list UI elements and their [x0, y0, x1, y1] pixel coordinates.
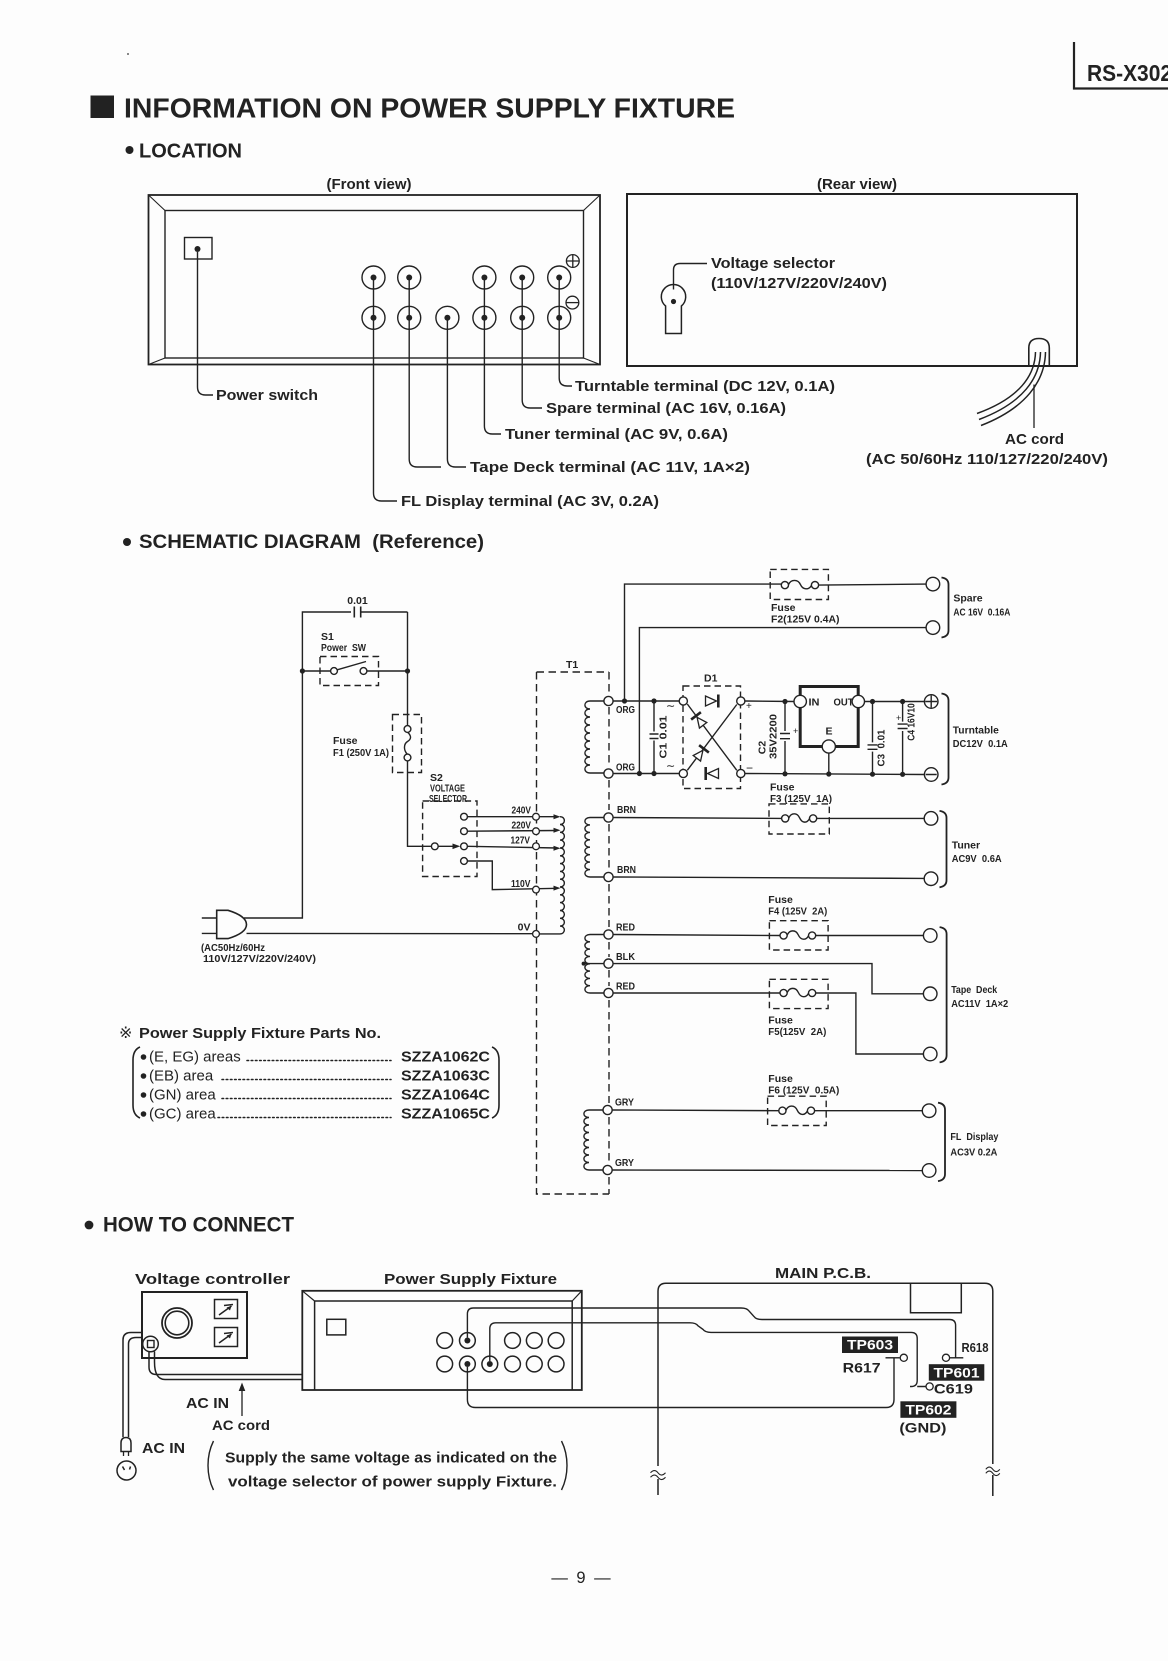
svg-text:Fuse: Fuse [770, 782, 795, 794]
selector S2 VOLTAGE SELECTOR [423, 772, 477, 877]
svg-text:Tape Deck: Tape Deck [951, 984, 997, 996]
label (Rear view) [817, 176, 897, 193]
svg-text:(GN) area: (GN) area [149, 1087, 216, 1104]
svg-text:Power SW: Power SW [321, 642, 366, 654]
svg-text:Turntable: Turntable [953, 725, 999, 737]
svg-text:35V2200: 35V2200 [768, 714, 780, 759]
turntable output terminals and label [924, 694, 1008, 785]
diode bridge D1 [679, 673, 753, 789]
svg-text:Power switch: Power switch [216, 387, 318, 404]
svg-text:110V: 110V [511, 878, 531, 890]
svg-text:SZZA1062C: SZZA1062C [401, 1049, 490, 1066]
svg-text:INFORMATION ON POWER SUPPLY FI: INFORMATION ON POWER SUPPLY FIXTURE [124, 93, 735, 124]
fuse F1 (250V 1A) [333, 715, 422, 773]
svg-text:AC9V 0.6A: AC9V 0.6A [952, 853, 1002, 865]
svg-text:Supply the same voltage as ind: Supply the same voltage as indicated on … [225, 1450, 557, 1467]
svg-text:LOCATION: LOCATION [139, 141, 242, 163]
svg-text:GRY: GRY [615, 1157, 634, 1169]
svg-text:C3 0.01: C3 0.01 [876, 729, 888, 766]
secondary terminals BRN [604, 804, 636, 882]
main PCB outline [651, 1283, 1000, 1496]
wire: ORG bottom rail to bridge [613, 771, 679, 776]
wire: F2 to spare terminal [819, 584, 927, 585]
capacitor C2 35V2200 [757, 702, 799, 774]
tape deck terminal leaders and label [409, 278, 750, 477]
wall plug (AC IN) [117, 1438, 136, 1481]
spare output terminals and label [926, 577, 1011, 637]
svg-text:RED: RED [616, 922, 635, 934]
svg-text:C4 16V10: C4 16V10 [906, 703, 918, 741]
svg-text:110V/127V/220V/240V): 110V/127V/220V/240V) [203, 953, 316, 965]
svg-text:— 9 —: — 9 — [551, 1569, 612, 1587]
resistor R617 test point [843, 1354, 908, 1375]
svg-text:E: E [826, 726, 833, 738]
model number label RS-X302 [1074, 42, 1168, 89]
capacitor 0.01 (line filter) [347, 595, 407, 618]
svg-text:(AC 50/60Hz 110/127/220/240V): (AC 50/60Hz 110/127/220/240V) [866, 451, 1108, 468]
svg-text:ORG: ORG [616, 704, 635, 716]
svg-text:SZZA1065C: SZZA1065C [401, 1106, 490, 1123]
wire: bridge - rail to output [745, 771, 925, 777]
secondary winding ORG (16V) [585, 701, 604, 773]
tape deck output terminals and label [923, 927, 1008, 1062]
svg-text:HOW TO CONNECT: HOW TO CONNECT [103, 1214, 294, 1237]
svg-text:Fuse: Fuse [768, 1073, 793, 1085]
wire: S2 127V tap [467, 846, 560, 851]
wire: S2 110V tap [467, 861, 560, 891]
svg-text:F2(125V 0.4A): F2(125V 0.4A) [771, 614, 840, 626]
svg-text:IN: IN [809, 697, 820, 709]
svg-text:FL Display terminal (AC 3V, 0.: FL Display terminal (AC 3V, 0.2A) [401, 493, 659, 510]
wire: ORG top rail to bridge [613, 698, 679, 703]
svg-text:+: + [896, 713, 901, 723]
front panel outline (bezel) [149, 195, 601, 365]
svg-text:Spare terminal (AC 16V, 0.16A): Spare terminal (AC 16V, 0.16A) [546, 400, 786, 417]
test point TP603 [842, 1337, 898, 1354]
svg-text:voltage selector of power supp: voltage selector of power supply Fixture… [228, 1474, 557, 1491]
spare terminal leader and label [522, 278, 786, 418]
AC cord: controller to wall plug [123, 1333, 142, 1438]
svg-text:AC 16V 0.16A: AC 16V 0.16A [953, 607, 1010, 619]
svg-text:T1: T1 [566, 659, 578, 671]
subheading: SCHEMATIC DIAGRAM (Reference) [123, 532, 484, 553]
wire: S2 240V tap [467, 814, 560, 819]
fuse F6 (125V 0.5A) [768, 1073, 840, 1126]
wire: spare feed top (to F2) [625, 584, 782, 701]
svg-text:ORG: ORG [616, 762, 635, 774]
wire W1: fixture to R618 (top trace) [467, 1308, 955, 1358]
wire: RED bottom rail through F5 to lower terminal [613, 993, 923, 1054]
wire: spare feed bottom [639, 628, 926, 774]
wire: S1 junction down to fuse F1 [407, 671, 409, 726]
svg-text:Tuner: Tuner [952, 840, 980, 852]
svg-text:BLK: BLK [616, 951, 635, 963]
svg-text:TP602: TP602 [905, 1402, 951, 1418]
controller switch buttons [215, 1300, 238, 1347]
primary tap terminals [533, 813, 540, 937]
label: Power Supply Fixture [384, 1271, 557, 1288]
wire: S2 220V tap [467, 828, 560, 833]
fuse F4 (125V 2A) [768, 894, 828, 950]
svg-text:SZZA1063C: SZZA1063C [401, 1068, 490, 1085]
svg-text:SZZA1064C: SZZA1064C [401, 1087, 490, 1104]
svg-text:AC11V 1A×2: AC11V 1A×2 [951, 998, 1008, 1010]
svg-text:220V: 220V [512, 819, 532, 831]
capacitor C619 test point [926, 1381, 973, 1397]
svg-text:(GC) area: (GC) area [149, 1106, 216, 1123]
label AC IN (controller output) [186, 1383, 245, 1417]
svg-text:RED: RED [616, 981, 635, 993]
svg-text:240V: 240V [512, 805, 532, 817]
parts number list [119, 1025, 499, 1123]
wire: regulator OUT to + terminal [865, 699, 925, 704]
svg-text:0.01: 0.01 [347, 595, 368, 607]
svg-text:F4 (125V 2A): F4 (125V 2A) [768, 906, 827, 918]
secondary winding GRY (3V) [584, 1110, 603, 1170]
svg-text:Spare: Spare [953, 593, 982, 605]
page corner mark [127, 53, 129, 55]
svg-text:※: ※ [119, 1025, 132, 1042]
PCB corner notch [911, 1283, 962, 1312]
svg-text:Fuse: Fuse [768, 894, 793, 906]
switch S1 Power SW [300, 631, 410, 686]
terminal sockets (front view) [362, 266, 571, 329]
svg-text:(Rear view): (Rear view) [817, 176, 897, 193]
svg-text:RS-X302: RS-X302 [1087, 60, 1168, 86]
fixture terminal sockets [437, 1333, 564, 1372]
svg-text:OUT: OUT [834, 697, 855, 709]
svg-text:+: + [746, 701, 752, 712]
label (Front view) [327, 176, 412, 193]
svg-text:Voltage selector: Voltage selector [711, 255, 835, 272]
svg-text:Tuner terminal (AC 9V, 0.6A): Tuner terminal (AC 9V, 0.6A) [505, 426, 728, 443]
svg-text:MAIN P.C.B.: MAIN P.C.B. [775, 1265, 871, 1282]
svg-text:+: + [793, 726, 798, 736]
label: MAIN P.C.B. [775, 1265, 871, 1282]
rear panel outline [627, 194, 1077, 366]
wire W3: fixture to R617 (bottom trace) [467, 1358, 894, 1408]
subheading: HOW TO CONNECT [85, 1214, 295, 1237]
wire: BRN bottom rail [613, 877, 924, 878]
svg-text:D1: D1 [704, 673, 718, 685]
wire: top rail right vertical down to S1 [407, 612, 409, 671]
svg-text:F1 (250V 1A): F1 (250V 1A) [333, 747, 389, 759]
power switch (front view) [185, 238, 213, 260]
polarity marks + and - [566, 255, 579, 309]
svg-text:(E, EG) areas: (E, EG) areas [149, 1049, 241, 1066]
capacitor C4 16V10 [896, 702, 918, 775]
svg-text:F5(125V 2A): F5(125V 2A) [768, 1026, 826, 1038]
wire: 0V line from plug to transformer [247, 932, 561, 935]
page number [551, 1569, 612, 1587]
svg-text:SELECTOR: SELECTOR [429, 793, 467, 805]
wire W2: fixture to C619 (middle trace) [490, 1323, 926, 1387]
svg-text:AC cord: AC cord [212, 1417, 270, 1433]
svg-text:0V: 0V [518, 922, 531, 934]
tuner terminal leader and label [484, 278, 728, 444]
svg-text:(GND): (GND) [899, 1420, 946, 1436]
svg-text:Tape Deck terminal (AC 11V, 1A: Tape Deck terminal (AC 11V, 1A×2) [470, 459, 750, 476]
svg-text:Voltage controller: Voltage controller [135, 1271, 290, 1288]
svg-text:BRN: BRN [617, 864, 636, 876]
power supply fixture box (pictorial) [302, 1291, 582, 1390]
test point TP601 [929, 1364, 985, 1381]
main heading: INFORMATION ON POWER SUPPLY FIXTURE [91, 93, 736, 124]
fuse F2 (125V 0.4A) [770, 569, 839, 625]
wire: GRY bottom rail [612, 1169, 922, 1172]
tuner output terminals and label [924, 811, 1002, 887]
svg-text:∼: ∼ [666, 701, 675, 713]
AC plug [201, 910, 316, 965]
svg-text:∼: ∼ [666, 761, 675, 773]
svg-text:F6 (125V 0.5A): F6 (125V 0.5A) [768, 1085, 839, 1097]
label (GND) [899, 1420, 946, 1436]
FL display terminal leader and label [374, 278, 660, 511]
svg-text:AC IN: AC IN [186, 1395, 229, 1412]
secondary winding BRN (9V) [585, 818, 604, 878]
voltage selector (keyhole) with leader and label [661, 255, 887, 334]
secondary terminals GRY [603, 1097, 634, 1175]
fuse F3 (125V 1A) [769, 782, 832, 835]
secondary terminals RED BLK RED [604, 922, 635, 998]
svg-text:AC IN: AC IN [142, 1440, 185, 1457]
svg-text:Turntable terminal (DC 12V, 0.: Turntable terminal (DC 12V, 0.1A) [575, 378, 835, 395]
svg-text:Power Supply Fixture: Power Supply Fixture [384, 1271, 557, 1288]
AC cord with grommet, leader and label [866, 339, 1108, 469]
FL display output terminals and label [922, 1103, 998, 1181]
secondary terminals ORG [604, 696, 635, 778]
transformer primary winding [560, 817, 564, 934]
svg-text:Power Supply Fixture Parts No.: Power Supply Fixture Parts No. [139, 1025, 381, 1042]
wire: bridge + rail to regulator [745, 699, 795, 704]
AC cord note [208, 1417, 567, 1491]
wire: BLK center tap to terminal [613, 964, 923, 994]
capacitor C1 0.01 [650, 701, 676, 773]
transformer T1 dashed box and label [537, 659, 610, 1194]
secondary winding RED/BLK/RED (11V x2) [582, 935, 604, 994]
wire: plug to top rail (left vertical) [244, 612, 351, 918]
svg-text:C619: C619 [934, 1381, 973, 1397]
subheading: LOCATION [126, 141, 243, 163]
AC cord: controller to fixture [149, 1352, 303, 1380]
wire: GRY top rail through F6 [612, 1109, 922, 1112]
power switch leader and label [198, 252, 319, 404]
voltage controller box [142, 1292, 247, 1358]
label AC IN (wall) [142, 1440, 185, 1457]
svg-text:(Front view): (Front view) [327, 176, 412, 193]
fuse F5 (125V 2A) [768, 979, 828, 1038]
controller AC socket [143, 1336, 159, 1352]
resistor R618 test point [942, 1341, 988, 1361]
svg-text:Fuse: Fuse [771, 602, 796, 614]
svg-text:(110V/127V/220V/240V): (110V/127V/220V/240V) [711, 275, 887, 292]
svg-text:TP601: TP601 [934, 1364, 980, 1380]
svg-text:TP603: TP603 [847, 1337, 893, 1353]
wire: BRN top rail through F3 [613, 817, 924, 820]
svg-text:SCHEMATIC DIAGRAM (Reference): SCHEMATIC DIAGRAM (Reference) [139, 532, 484, 553]
wire: F1 down and right to S2 common [408, 761, 432, 846]
label: Voltage controller [135, 1271, 290, 1288]
svg-text:BRN: BRN [617, 804, 636, 816]
svg-text:C1 0.01: C1 0.01 [658, 715, 670, 758]
svg-text:AC3V 0.2A: AC3V 0.2A [950, 1147, 997, 1159]
svg-text:Fuse: Fuse [768, 1015, 793, 1027]
test point TP602 [900, 1401, 956, 1418]
svg-text:R618: R618 [962, 1341, 989, 1355]
primary tap labels [511, 805, 532, 934]
svg-text:GRY: GRY [615, 1097, 634, 1109]
svg-text:(EB) area: (EB) area [149, 1068, 214, 1085]
voltage regulator (IN/OUT/E) [794, 687, 865, 775]
capacitor C3 0.01 [868, 702, 888, 775]
wire: RED top rail through F4 [613, 935, 923, 936]
svg-text:127V: 127V [511, 835, 531, 847]
turntable terminal leader and label [559, 278, 835, 396]
svg-text:Fuse: Fuse [333, 735, 358, 747]
svg-text:AC cord: AC cord [1005, 431, 1064, 448]
svg-text:FL Display: FL Display [950, 1131, 998, 1143]
svg-text:R617: R617 [843, 1360, 881, 1376]
svg-text:DC12V 0.1A: DC12V 0.1A [953, 738, 1008, 750]
